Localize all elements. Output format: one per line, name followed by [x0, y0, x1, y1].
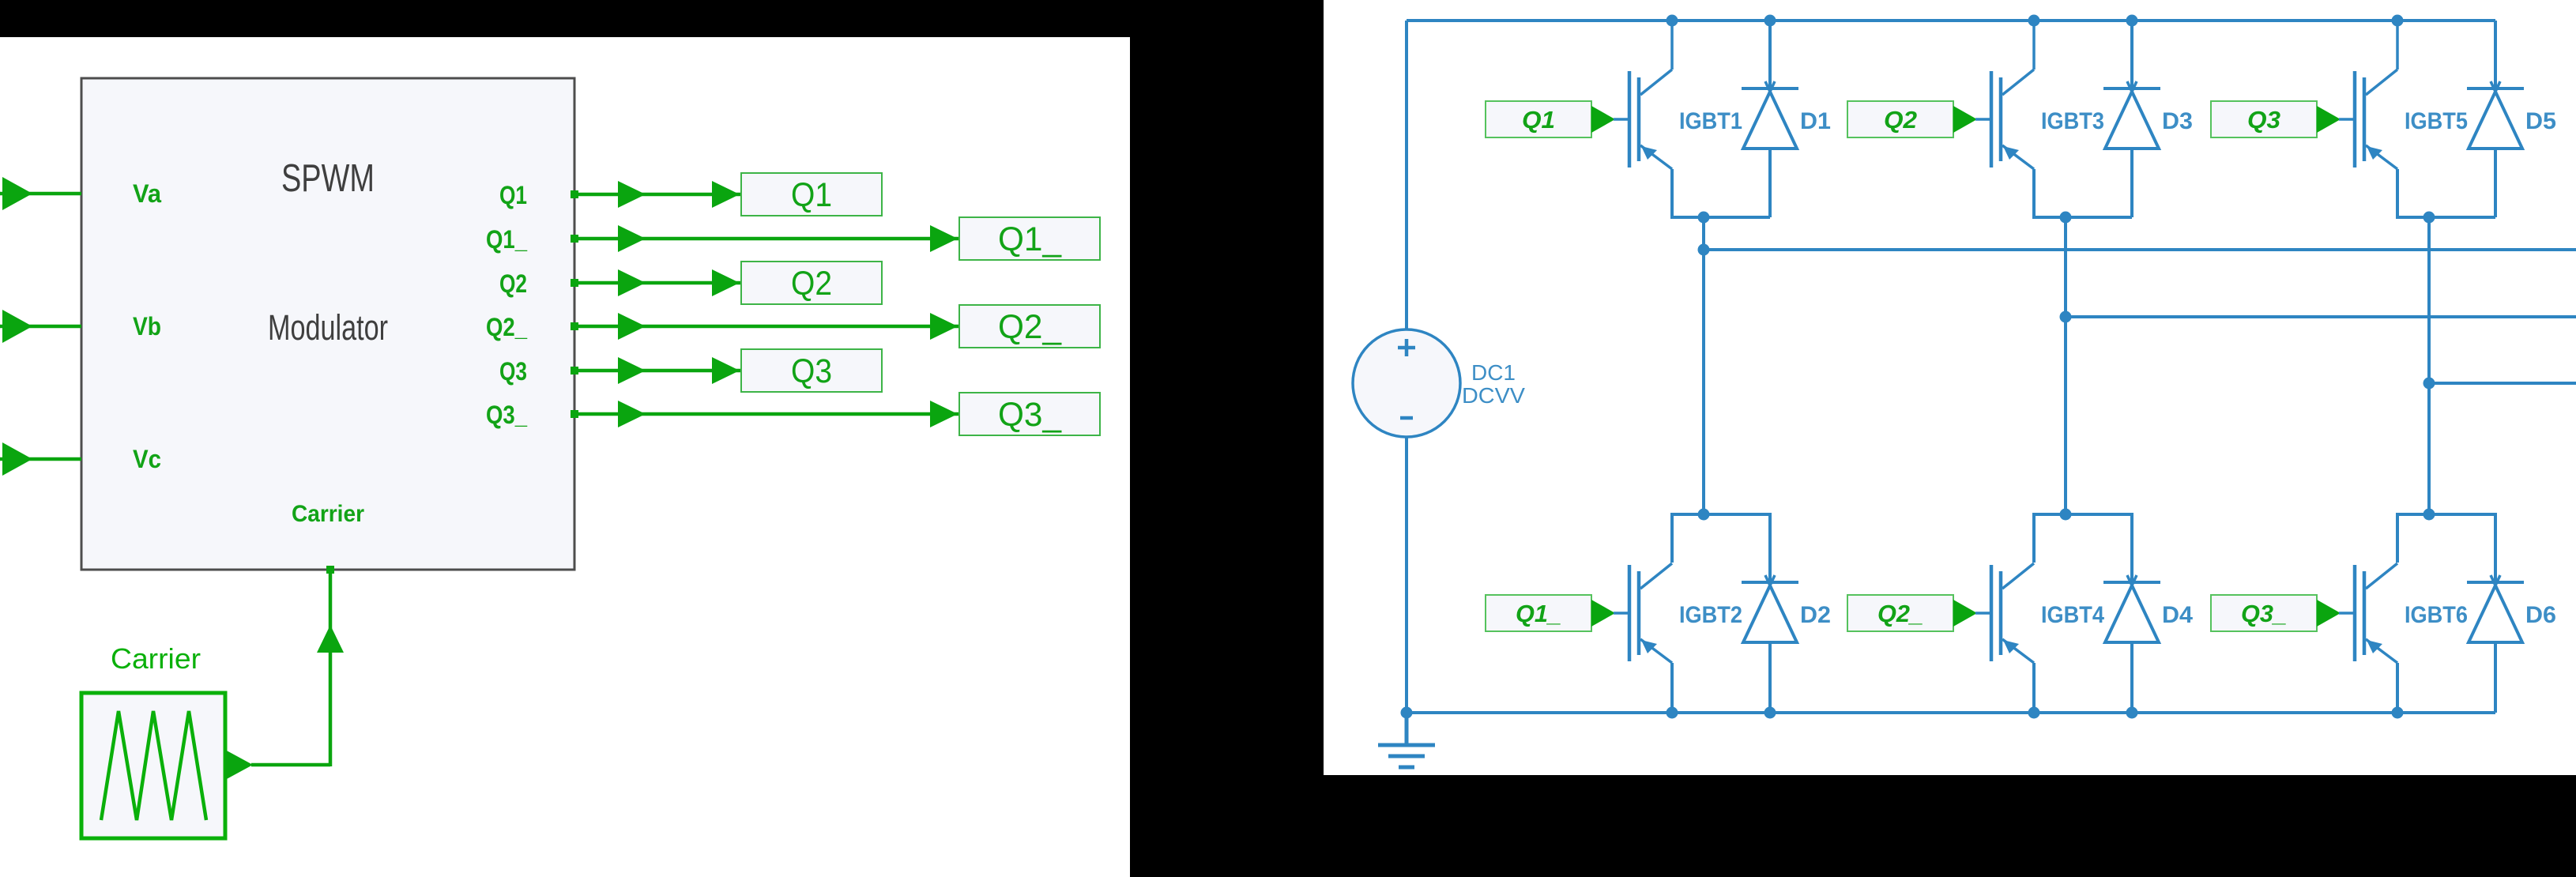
svg-text:D1: D1	[1800, 108, 1831, 134]
right white canvas panel	[1324, 0, 2576, 775]
pin marker Q3_	[571, 410, 578, 418]
junction dot D1 on top bus	[1764, 15, 1776, 27]
wire phase C output	[2429, 382, 2576, 385]
svg-text:IGBT3: IGBT3	[2041, 108, 2104, 134]
node box Q2_	[959, 305, 1100, 348]
wire collector IGBT3 to top bus	[2032, 21, 2036, 70]
junction dot D2 on bottom rail	[1764, 707, 1776, 719]
transistor IGBT4	[1991, 563, 2034, 663]
wire input Va	[0, 192, 81, 196]
wire Q3_ output	[574, 412, 959, 416]
junction dot emitter IGBT4 on bottom rail	[2028, 707, 2040, 719]
wire lower leg top connector	[1672, 514, 1770, 582]
svg-text:Q2: Q2	[499, 269, 527, 298]
pin marker Q3	[571, 367, 578, 375]
junction dot emitter IGBT6 on bottom rail	[2392, 707, 2404, 719]
wire phase tap vertical	[2427, 217, 2431, 514]
wire D5 cathode to top bus	[2494, 21, 2497, 88]
wire Q2 output	[574, 281, 741, 285]
svg-text:D6: D6	[2525, 602, 2556, 628]
wire lower leg top connector	[2397, 514, 2495, 582]
junction dot at DC1 / ground	[1401, 707, 1413, 719]
svg-text:Q2: Q2	[791, 265, 832, 303]
junction dot lower leg feed	[2423, 509, 2435, 521]
top DC bus wire	[1407, 19, 2495, 22]
arrowhead carrier source output	[225, 750, 253, 780]
arrowhead input Vc	[2, 442, 32, 476]
pin marker carrier input	[326, 566, 334, 574]
svg-text:Q1_: Q1_	[486, 225, 528, 254]
svg-text:IGBT5: IGBT5	[2405, 108, 2468, 134]
junction dot D4 on bottom rail	[2126, 707, 2138, 719]
svg-text:Vb: Vb	[133, 312, 161, 341]
junction dot collector IGBT5 on top bus	[2392, 15, 2404, 27]
wire carrier horizontal segment	[251, 763, 330, 767]
wire Q1_ output	[574, 237, 959, 241]
arrowhead at node Q1_	[930, 225, 958, 252]
junction dot emitter IGBT3	[2060, 212, 2072, 224]
arrowhead mid wire Q2_	[618, 313, 646, 340]
carrier triangle-wave source block	[81, 693, 225, 838]
node box Q2	[741, 262, 882, 304]
wire collector IGBT1 to top bus	[1670, 21, 1674, 70]
svg-text:Q1: Q1	[499, 181, 527, 209]
svg-text:Q2: Q2	[1884, 106, 1917, 134]
junction dot phase node	[2423, 378, 2435, 390]
transistor IGBT5	[2355, 70, 2397, 169]
wire phase B output	[2066, 315, 2576, 318]
wire gate lead IGBT5	[2339, 118, 2355, 121]
junction dot lower leg feed	[1698, 509, 1710, 521]
svg-text:Q1_: Q1_	[1516, 600, 1561, 627]
junction dot D3 on top bus	[2126, 15, 2138, 27]
svg-text:IGBT4: IGBT4	[2041, 602, 2104, 628]
wire Q3 output	[574, 369, 741, 373]
svg-text:IGBT6: IGBT6	[2405, 602, 2468, 628]
ground symbol	[1378, 713, 1435, 767]
wire Q1 output	[574, 193, 741, 197]
junction dot lower leg feed	[2060, 509, 2072, 521]
svg-text:Q1: Q1	[791, 176, 832, 214]
diode D3	[2103, 81, 2160, 217]
arrowhead at node Q2	[712, 269, 740, 296]
transistor IGBT2	[1629, 563, 1672, 663]
wire input Vb	[0, 325, 81, 329]
junction dot phase node	[1698, 244, 1710, 256]
svg-text:D4: D4	[2162, 602, 2193, 628]
wire collector IGBT5 to top bus	[2396, 21, 2399, 70]
svg-text:IGBT2: IGBT2	[1679, 602, 1742, 628]
gate input box Q2	[1847, 101, 1953, 137]
diode D6	[2467, 575, 2524, 713]
minus sign of DC1	[1400, 416, 1413, 420]
arrowhead carrier wire (pointing up)	[317, 625, 344, 653]
bottom DC bus wire (0V rail)	[1407, 711, 2495, 714]
gate input box Q3_	[2211, 595, 2317, 631]
diode D2	[1742, 575, 1798, 713]
junction dot emitter IGBT5	[2423, 212, 2435, 224]
arrowhead at node Q1	[712, 181, 740, 208]
arrowhead at node Q3	[712, 357, 740, 384]
wire phase A output	[1704, 248, 2576, 251]
wire phase tap vertical	[2064, 217, 2067, 514]
svg-text:Carrier: Carrier	[292, 501, 364, 527]
svg-text:IGBT1: IGBT1	[1679, 108, 1742, 134]
svg-text:Q2_: Q2_	[1877, 600, 1923, 627]
svg-text:Q1_: Q1_	[998, 220, 1062, 258]
arrowhead gate Q1_	[1591, 600, 1615, 627]
arrowhead mid wire Q3_	[618, 401, 646, 427]
gate input box Q3	[2211, 101, 2317, 137]
node box Q1_	[959, 217, 1100, 260]
diode D4	[2103, 575, 2160, 713]
triangle carrier waveform glyph	[101, 711, 206, 820]
transistor IGBT3	[1991, 70, 2034, 169]
wire DC1 positive to top bus	[1405, 21, 1408, 330]
arrowhead at node Q3_	[930, 401, 958, 427]
junction dot collector IGBT3 on top bus	[2028, 15, 2040, 27]
svg-text:DCVV: DCVV	[1462, 383, 1525, 408]
svg-text:D5: D5	[2525, 108, 2556, 134]
arrowhead gate Q2_	[1953, 600, 1977, 627]
svg-text:Q1: Q1	[1522, 106, 1555, 134]
svg-text:Q3: Q3	[791, 352, 832, 390]
wire carrier vertical segment	[329, 570, 333, 766]
junction dot collector IGBT1 on top bus	[1666, 15, 1678, 27]
svg-text:D3: D3	[2162, 108, 2193, 134]
wire emitter IGBT1	[1672, 169, 1770, 217]
pin marker Q2	[571, 279, 578, 287]
pin marker Q1	[571, 190, 578, 198]
svg-text:Vc: Vc	[133, 445, 161, 473]
wire lower leg top connector	[2034, 514, 2132, 582]
wire Q2_ output	[574, 325, 959, 329]
svg-text:Q2_: Q2_	[486, 313, 528, 341]
svg-text:Q3: Q3	[2247, 106, 2280, 134]
wire gate lead IGBT4	[1975, 612, 1991, 615]
plus sign of DC1	[1398, 339, 1415, 356]
arrowhead gate Q3_	[2317, 600, 2341, 627]
wire emitter IGBT2 to bottom rail	[1670, 663, 1674, 713]
SPWM modulator block U1	[81, 78, 574, 570]
wire emitter IGBT3	[2034, 169, 2132, 217]
arrowhead gate Q1	[1591, 106, 1615, 133]
arrowhead gate Q3	[2317, 106, 2341, 133]
diode D1	[1742, 81, 1798, 217]
wire gate lead IGBT2	[1614, 612, 1629, 615]
svg-text:Q3_: Q3_	[486, 401, 528, 429]
arrowhead gate Q2	[1953, 106, 1977, 133]
svg-text:Q3: Q3	[499, 357, 527, 386]
svg-text:Carrier: Carrier	[111, 642, 201, 675]
wire gate lead IGBT6	[2339, 612, 2355, 615]
pin marker Q1_	[571, 235, 578, 243]
svg-text:Q3_: Q3_	[2241, 600, 2287, 627]
wire D3 cathode to top bus	[2130, 21, 2133, 88]
transistor IGBT1	[1629, 70, 1672, 169]
node box Q1	[741, 173, 882, 216]
arrowhead mid wire Q1	[618, 181, 646, 208]
arrowhead mid wire Q2	[618, 269, 646, 296]
junction dot emitter IGBT2 on bottom rail	[1666, 707, 1678, 719]
arrowhead input Va	[2, 177, 32, 210]
node box Q3	[741, 349, 882, 392]
left white canvas panel	[0, 37, 1130, 877]
wire gate lead IGBT1	[1614, 118, 1629, 121]
svg-text:Va: Va	[133, 179, 161, 208]
svg-text:SPWM: SPWM	[281, 157, 375, 200]
gate input box Q2_	[1847, 595, 1953, 631]
gate input box Q1_	[1486, 595, 1591, 631]
arrowhead input Vb	[2, 310, 32, 343]
wire emitter IGBT4 to bottom rail	[2032, 663, 2036, 713]
arrowhead mid wire Q1_	[618, 225, 646, 252]
svg-text:Modulator: Modulator	[268, 307, 388, 348]
wire emitter IGBT5	[2397, 169, 2495, 217]
junction dot emitter IGBT1	[1698, 212, 1710, 224]
svg-text:Q2_: Q2_	[998, 308, 1062, 346]
wire input Vc	[0, 457, 81, 461]
svg-text:Q3_: Q3_	[998, 396, 1062, 434]
svg-text:DC1: DC1	[1471, 360, 1516, 385]
junction dot phase node	[2060, 311, 2072, 323]
DC voltage source DC1	[1353, 329, 1460, 437]
pin marker Q2_	[571, 322, 578, 330]
transistor IGBT6	[2355, 563, 2397, 663]
wire D1 cathode to top bus	[1768, 21, 1772, 88]
arrowhead at node Q2_	[930, 313, 958, 340]
node box Q3_	[959, 393, 1100, 435]
svg-text:D2: D2	[1800, 602, 1831, 628]
wire DC1 negative to bottom rail	[1405, 437, 1408, 713]
diode D5	[2467, 81, 2524, 217]
wire phase tap vertical	[1702, 217, 1705, 514]
wire emitter IGBT6 to bottom rail	[2396, 663, 2399, 713]
arrowhead mid wire Q3	[618, 357, 646, 384]
gate input box Q1	[1486, 101, 1591, 137]
wire gate lead IGBT3	[1975, 118, 1991, 121]
